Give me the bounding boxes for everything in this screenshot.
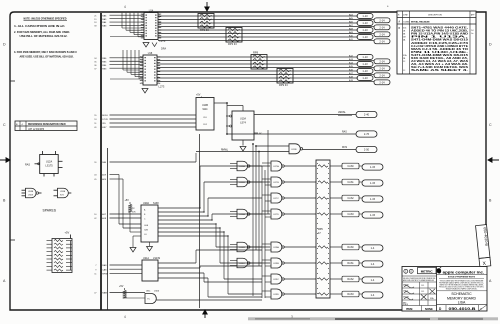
edge connector pin RAM [94, 292, 145, 295]
svg-text:64K RAM DETAIL, A8 AND A5,: 64K RAM DETAIL, A8 AND A5, [411, 57, 469, 60]
svg-text:LMDSL: LMDSL [338, 112, 346, 114]
pull-up resistor R2 20K to +5V [125, 199, 142, 232]
svg-text:D: D [3, 43, 6, 47]
svg-text:1. ALL CAPACITORS ARE IN uF.: 1. ALL CAPACITORS ARE IN uF. [14, 24, 65, 28]
DRA bus label [152, 43, 166, 51]
svg-text:1-15: 1-15 [421, 285, 424, 287]
svg-text:G2A: G2A [144, 224, 149, 227]
svg-text:SPARES: SPARES [43, 209, 57, 213]
svg-text:U17D: U17D [273, 214, 279, 216]
svg-text:2-76: 2-76 [364, 132, 370, 136]
edge connector pins RAS CAS RFSH [94, 264, 142, 275]
SPARES caption [43, 209, 57, 213]
svg-text:U17A: U17A [273, 165, 279, 168]
gate U11B driving ROS [196, 144, 356, 162]
RMWL net label [221, 150, 229, 152]
RAS1L output callout [330, 260, 383, 267]
svg-text:U10B: U10B [202, 105, 208, 107]
svg-text:NONE: NONE [425, 307, 433, 311]
svg-text:RAM: RAM [102, 292, 107, 295]
U21A output wires [158, 250, 262, 297]
svg-text:METRIC: METRIC [421, 270, 434, 274]
zone letter B right margin [489, 199, 492, 203]
svg-text:3C6: 3C6 [403, 28, 406, 30]
svg-text:CAS3: CAS3 [347, 213, 354, 216]
left border tick marks [10, 81, 15, 240]
svg-text:RP9 33: RP9 33 [279, 83, 288, 87]
svg-text:2/4: 2/4 [471, 30, 474, 32]
svg-text:CLK: CLK [203, 117, 208, 119]
svg-text:1-4: 1-4 [371, 262, 375, 266]
edge connector pins group 3 (clock inputs) [94, 115, 196, 129]
svg-text:C: C [3, 123, 6, 127]
svg-text:RMWL: RMWL [221, 150, 229, 152]
svg-text:U17B: U17B [273, 182, 279, 184]
svg-text:U21A: U21A [143, 257, 149, 260]
svg-text:RP3 33: RP3 33 [228, 42, 237, 46]
CAS driver gate U17B [262, 177, 316, 187]
wire risers to U14 left pins [110, 13, 144, 37]
gate U6C TC [145, 291, 262, 304]
CAS driver gate U17D [262, 209, 316, 219]
svg-text:CAS2: CAS2 [347, 197, 354, 200]
svg-text:2-50: 2-50 [364, 148, 370, 152]
svg-text:1-4: 1-4 [371, 278, 375, 282]
pre-gate U15B [230, 177, 270, 187]
svg-text:X: X [480, 307, 482, 311]
svg-text:USE BILL OF MATERIAL 620-5112.: USE BILL OF MATERIAL 620-5112. [20, 34, 68, 38]
RAS0L output callout [330, 244, 383, 251]
svg-text:1-15: 1-15 [421, 291, 424, 293]
bus group 1 destination callouts [349, 14, 390, 44]
svg-text:1-13: 1-13 [362, 69, 368, 73]
RAS driver gate U19D [262, 289, 316, 299]
svg-text:C: C [489, 123, 492, 127]
svg-text:1-13: 1-13 [362, 28, 368, 32]
svg-text:2-14: 2-14 [379, 73, 385, 77]
svg-text:1-15: 1-15 [370, 213, 376, 217]
U20A enable stub [133, 236, 141, 247]
zone letter B left margin [3, 199, 6, 203]
svg-text:U19C: U19C [273, 279, 279, 281]
svg-text:1-4: 1-4 [371, 293, 375, 297]
svg-text:U31B: U31B [60, 191, 66, 193]
svg-text:CJ+C32 UPPER AND LOWER BYTE: CJ+C32 UPPER AND LOWER BYTE [411, 45, 469, 48]
svg-text:LS74: LS74 [240, 122, 246, 125]
edge connector pins group 1 (RA lines) [94, 14, 144, 27]
pre-gate U15A [230, 161, 270, 171]
left margin alignment arrow [0, 158, 10, 162]
resistor pack RP3 33 ohm [226, 28, 242, 47]
edge connector pins A17 A18 [94, 213, 141, 220]
title block metric row [402, 268, 437, 277]
svg-text:20K: 20K [132, 212, 136, 214]
svg-text:RAS: RAS [25, 164, 30, 167]
svg-text:1-15: 1-15 [370, 197, 376, 201]
revision history table [397, 11, 476, 74]
svg-text:U24B: U24B [28, 191, 34, 193]
edge connector pins group 2 (RB lines) [94, 58, 143, 70]
svg-text:U6C: U6C [146, 291, 151, 293]
bottom margin zone number 3 [124, 315, 293, 319]
svg-text:U19B: U19B [273, 263, 279, 265]
svg-text:A0 WAS A4, A1 WAS A3, A7, WAS: A0 WAS A4, A1 WAS A3, A7, WAS [411, 60, 469, 63]
svg-text:ITEM: ITEM [406, 307, 413, 311]
svg-text:U12A: U12A [46, 161, 53, 164]
RAS3L output callout [330, 291, 383, 298]
svg-text:A0, A4 WAS A1 + A3 WAS A8.: A0, A4 WAS A1 + A3 WAS A8. [411, 63, 469, 66]
row decoder U20A S138 [141, 202, 159, 242]
svg-text:RAS0: RAS0 [347, 246, 354, 249]
svg-text:ARE USED. USE BILL OF MATERIA: ARE USED. USE BILL OF MATERIAL 620-0192. [20, 54, 74, 58]
svg-text:SH.7+4-64K RAM DETAIL WAS: SH.7+4-64K RAM DETAIL WAS [411, 66, 469, 69]
svg-text:+5V: +5V [196, 94, 201, 97]
CAS3L output callout [330, 211, 383, 218]
right margin alignment arrow [488, 158, 499, 162]
svg-text:U15B: U15B [239, 182, 245, 184]
zone letter D left margin [3, 43, 6, 47]
svg-text:2-14: 2-14 [379, 66, 385, 70]
svg-text:LS139: LS139 [153, 257, 161, 260]
svg-text:INITIAL RELEASE: INITIAL RELEASE [411, 21, 430, 24]
pull-up resistor R3 to +5V [119, 285, 145, 298]
svg-text:RAS2: RAS2 [347, 278, 354, 281]
svg-text:U11B: U11B [291, 149, 297, 151]
svg-text:1-15: 1-15 [370, 165, 376, 169]
LMDSL callout [338, 111, 377, 117]
svg-text:U19D: U19D [273, 294, 279, 296]
svg-text:U19A: U19A [273, 246, 279, 249]
edge connector bus rail [101, 13, 108, 310]
svg-text:WAS CJ.4 56. ADDED 46 TO: WAS CJ.4 56. ADDED 46 TO [411, 48, 468, 51]
ground below U13A [240, 147, 246, 152]
svg-text:9114: 9114 [203, 109, 209, 111]
svg-text:NOTE: UNLESS OTHERWISE SPECIFI: NOTE: UNLESS OTHERWISE SPECIFIED [24, 17, 68, 21]
svg-text:LS00: LS00 [154, 291, 160, 293]
svg-text:RP6: RP6 [318, 228, 323, 231]
svg-text:RP8: RP8 [253, 50, 259, 54]
svg-text:HSY: HSY [102, 127, 107, 129]
title block drawing number row 050-4010-B [439, 305, 487, 312]
svg-text:ADDED C16,C25,C26+C73: ADDED C16,C25,C26+C73 [411, 42, 470, 45]
zone letter A left margin [3, 279, 6, 283]
svg-text:2-14: 2-14 [379, 80, 385, 84]
ground below U14 [143, 43, 149, 48]
ROSL callout [342, 146, 377, 152]
svg-text:1-13: 1-13 [362, 55, 368, 59]
series resistor pack RP6 47 ohm [316, 160, 330, 298]
CAS0L output callout [330, 163, 383, 170]
svg-text:RP2 33: RP2 33 [200, 28, 209, 32]
A19 select riser [119, 175, 141, 225]
spare gate U31B [54, 188, 72, 198]
pre-gate U16A [230, 209, 270, 219]
scanner shadow streak bottom edge [248, 317, 498, 320]
vertical drawing number stamp 050-4010-B [476, 225, 491, 268]
svg-text:1-13: 1-13 [362, 14, 368, 18]
title block tolerance note line [402, 278, 437, 282]
svg-text:CLR: CLR [203, 124, 208, 126]
svg-text:U13A: U13A [240, 118, 246, 121]
ground below U20A [147, 242, 153, 251]
svg-text:CHECK: CHECK [403, 291, 408, 293]
svg-text:LS175: LS175 [45, 165, 53, 168]
resistor pack RP8 33 ohm [251, 50, 267, 69]
svg-text:1-13: 1-13 [362, 35, 368, 39]
spare flip-flop U12A LS175 [25, 151, 63, 177]
vertical feed wires to gate matrix [200, 130, 269, 308]
CAS1L output callout [330, 179, 383, 186]
svg-text:apple computer inc.: apple computer inc. [443, 269, 485, 274]
svg-text:U15A: U15A [239, 165, 245, 168]
title block drawing title SCHEMATIC MEMORY BOARD LISA [437, 292, 488, 305]
LMDSL output wire [254, 114, 356, 116]
svg-text:4: 4 [124, 315, 126, 319]
pre-gate U16C [230, 258, 270, 268]
svg-text:U17C: U17C [273, 198, 279, 200]
A20 select riser [123, 179, 141, 228]
svg-text:1-13: 1-13 [362, 76, 368, 80]
svg-text:CAS0: CAS0 [347, 165, 354, 168]
svg-text:PIN 1 U13A.: PIN 1 U13A. [411, 36, 470, 39]
svg-text:+5V: +5V [125, 199, 130, 202]
svg-text:S471-D4M-D6M WAS D8-D15: S471-D4M-D6M WAS D8-D15 [411, 39, 469, 42]
wire risers to U18 left pins [110, 50, 143, 79]
svg-text:DCMG: DCMG [404, 22, 410, 24]
notes text block [14, 17, 78, 59]
svg-text:2-14: 2-14 [379, 32, 385, 36]
svg-text:ADDED 46 TO PIN 13 U6C,2/3B,: ADDED 46 TO PIN 13 U6C,2/3B, [411, 30, 469, 33]
zone letter A right margin [489, 279, 492, 283]
svg-text:L273: L273 [159, 85, 165, 89]
svg-text:SAME AS SHEET 3.: SAME AS SHEET 3. [411, 69, 469, 72]
svg-text:U37 L2 R2 RP6: U37 L2 R2 RP6 [28, 129, 45, 131]
svg-text:1-4: 1-4 [371, 246, 375, 250]
top margin alignment arrow [205, 2, 209, 11]
svg-text:1-13: 1-13 [362, 62, 368, 66]
svg-text:+5V: +5V [119, 285, 124, 288]
title block signature grid [402, 282, 437, 306]
resistor pack RP9 33 ohm [277, 69, 293, 88]
top margin mark [124, 4, 389, 9]
svg-text:2-14: 2-14 [379, 25, 385, 29]
svg-text:G: G [410, 271, 412, 274]
svg-text:RAS: RAS [342, 131, 347, 134]
spare gate U24B [22, 188, 42, 198]
svg-text:UNLESS OTHERWISE SPECIFIED DIM: UNLESS OTHERWISE SPECIFIED DIMENSIONS [403, 278, 435, 280]
svg-text:TC: TC [147, 299, 150, 301]
CAS driver gate U17C [262, 193, 316, 203]
RASL callout [342, 131, 377, 137]
CAS2L output callout [330, 195, 383, 202]
svg-text:RAS: RAS [102, 264, 107, 267]
svg-text:CAS1: CAS1 [347, 181, 354, 184]
svg-text:+5V: +5V [65, 231, 70, 235]
ground below U18 [142, 89, 148, 94]
ground at U20A enable [130, 248, 136, 253]
edge connector pins A19 A20 [94, 174, 123, 182]
svg-text:U16C: U16C [239, 263, 245, 265]
bus group 2 destination callouts [349, 55, 390, 85]
svg-text:4: 4 [124, 5, 126, 9]
svg-text:PRODUCED, USED OR DISCLOSED TO: PRODUCED, USED OR DISCLOSED TO OTHERS WI… [439, 287, 484, 289]
decoder output bundle wires [158, 166, 262, 294]
svg-text:ROS: ROS [342, 147, 347, 149]
resistor pack RP2 33 ohm [198, 14, 214, 33]
svg-text:VID: VID [102, 123, 106, 125]
RAM address mux U18 LS253 [140, 52, 165, 89]
svg-text:U16A: U16A [239, 213, 245, 216]
svg-text:DTCK: DTCK [102, 119, 108, 121]
svg-text:U14: U14 [149, 9, 154, 12]
wire U10B output to U13A [214, 102, 228, 134]
zone letter D right margin [489, 43, 492, 47]
timing PROM U10B [196, 94, 214, 131]
svg-text:CAS: CAS [102, 268, 107, 271]
svg-text:PIN 15 U13A,PIN 14/5 U11B AND: PIN 15 U13A,PIN 14/5 U11B AND [411, 33, 469, 36]
svg-text:2-14: 2-14 [379, 39, 385, 43]
svg-text:RAS1: RAS1 [347, 262, 354, 265]
svg-text:U16B: U16B [239, 247, 245, 249]
svg-text:LS08: LS08 [28, 195, 34, 197]
svg-text:REFERENCE DESIGNATION USED: REFERENCE DESIGNATION USED [28, 123, 66, 126]
svg-text:S138: S138 [153, 202, 159, 205]
svg-text:S471-D4M-D8M WAS D8-D15: S471-D4M-D8M WAS D8-D15 [411, 54, 469, 57]
RAS driver gate U19C [262, 274, 316, 284]
svg-text:2-40: 2-40 [364, 113, 370, 117]
edge connector pin PA0 [94, 161, 196, 164]
D flip-flop U13A LS74 [226, 106, 263, 146]
svg-text:DESCRIPTION: DESCRIPTION [428, 15, 442, 17]
svg-text:RFSH: RFSH [102, 274, 108, 276]
svg-text:2-14: 2-14 [379, 59, 385, 63]
svg-text:DRA: DRA [161, 48, 166, 51]
svg-text:Gn: Gn [471, 33, 473, 35]
svg-text:S671-4781 WAS 4440 GATE,: S671-4781 WAS 4440 GATE, [411, 27, 469, 30]
svg-text:LISA: LISA [458, 301, 466, 305]
svg-text:050-4010-B: 050-4010-B [449, 306, 476, 311]
reference designation table [15, 121, 77, 131]
svg-text:C: C [405, 271, 407, 274]
zone letter C right margin [489, 123, 492, 127]
title block proprietary notice [437, 276, 488, 291]
spare resistor pack RP5 with +5V [47, 231, 73, 273]
title block frame [402, 267, 487, 312]
svg-text:2-14: 2-14 [379, 18, 385, 22]
RAS driver gate U19A [262, 242, 316, 252]
title block item none row [406, 306, 433, 312]
svg-text:U20A: U20A [143, 202, 149, 205]
svg-text:RAS3: RAS3 [347, 293, 354, 296]
address bus lines group 1 [158, 16, 358, 41]
CAS driver gate U17A [262, 161, 316, 171]
svg-text:D: D [489, 43, 492, 47]
svg-text:1-15: 1-15 [370, 181, 376, 185]
zone letter C left margin [3, 123, 6, 127]
RASL wire [226, 133, 356, 135]
RAM address mux U14 LS253 [141, 9, 166, 43]
svg-text:U18: U18 [148, 52, 153, 55]
RAS2L output callout [330, 276, 383, 283]
svg-text:PIN 11 U13C,U13E.: PIN 11 U13C,U13E. [411, 52, 469, 54]
refresh decoder U21A LS139 [142, 257, 161, 281]
svg-text:1-13: 1-13 [362, 21, 368, 25]
svg-text:L273: L273 [160, 39, 166, 43]
bottom margin alignment arrow [203, 310, 207, 318]
svg-text:G2B: G2B [144, 230, 149, 232]
pre-gate U16B [230, 242, 270, 252]
apple computer inc logo and header [436, 267, 487, 275]
address bus lines group 2 [157, 57, 358, 82]
svg-text:MCLK: MCLK [102, 115, 108, 117]
RAS driver gate U19B [262, 258, 316, 268]
